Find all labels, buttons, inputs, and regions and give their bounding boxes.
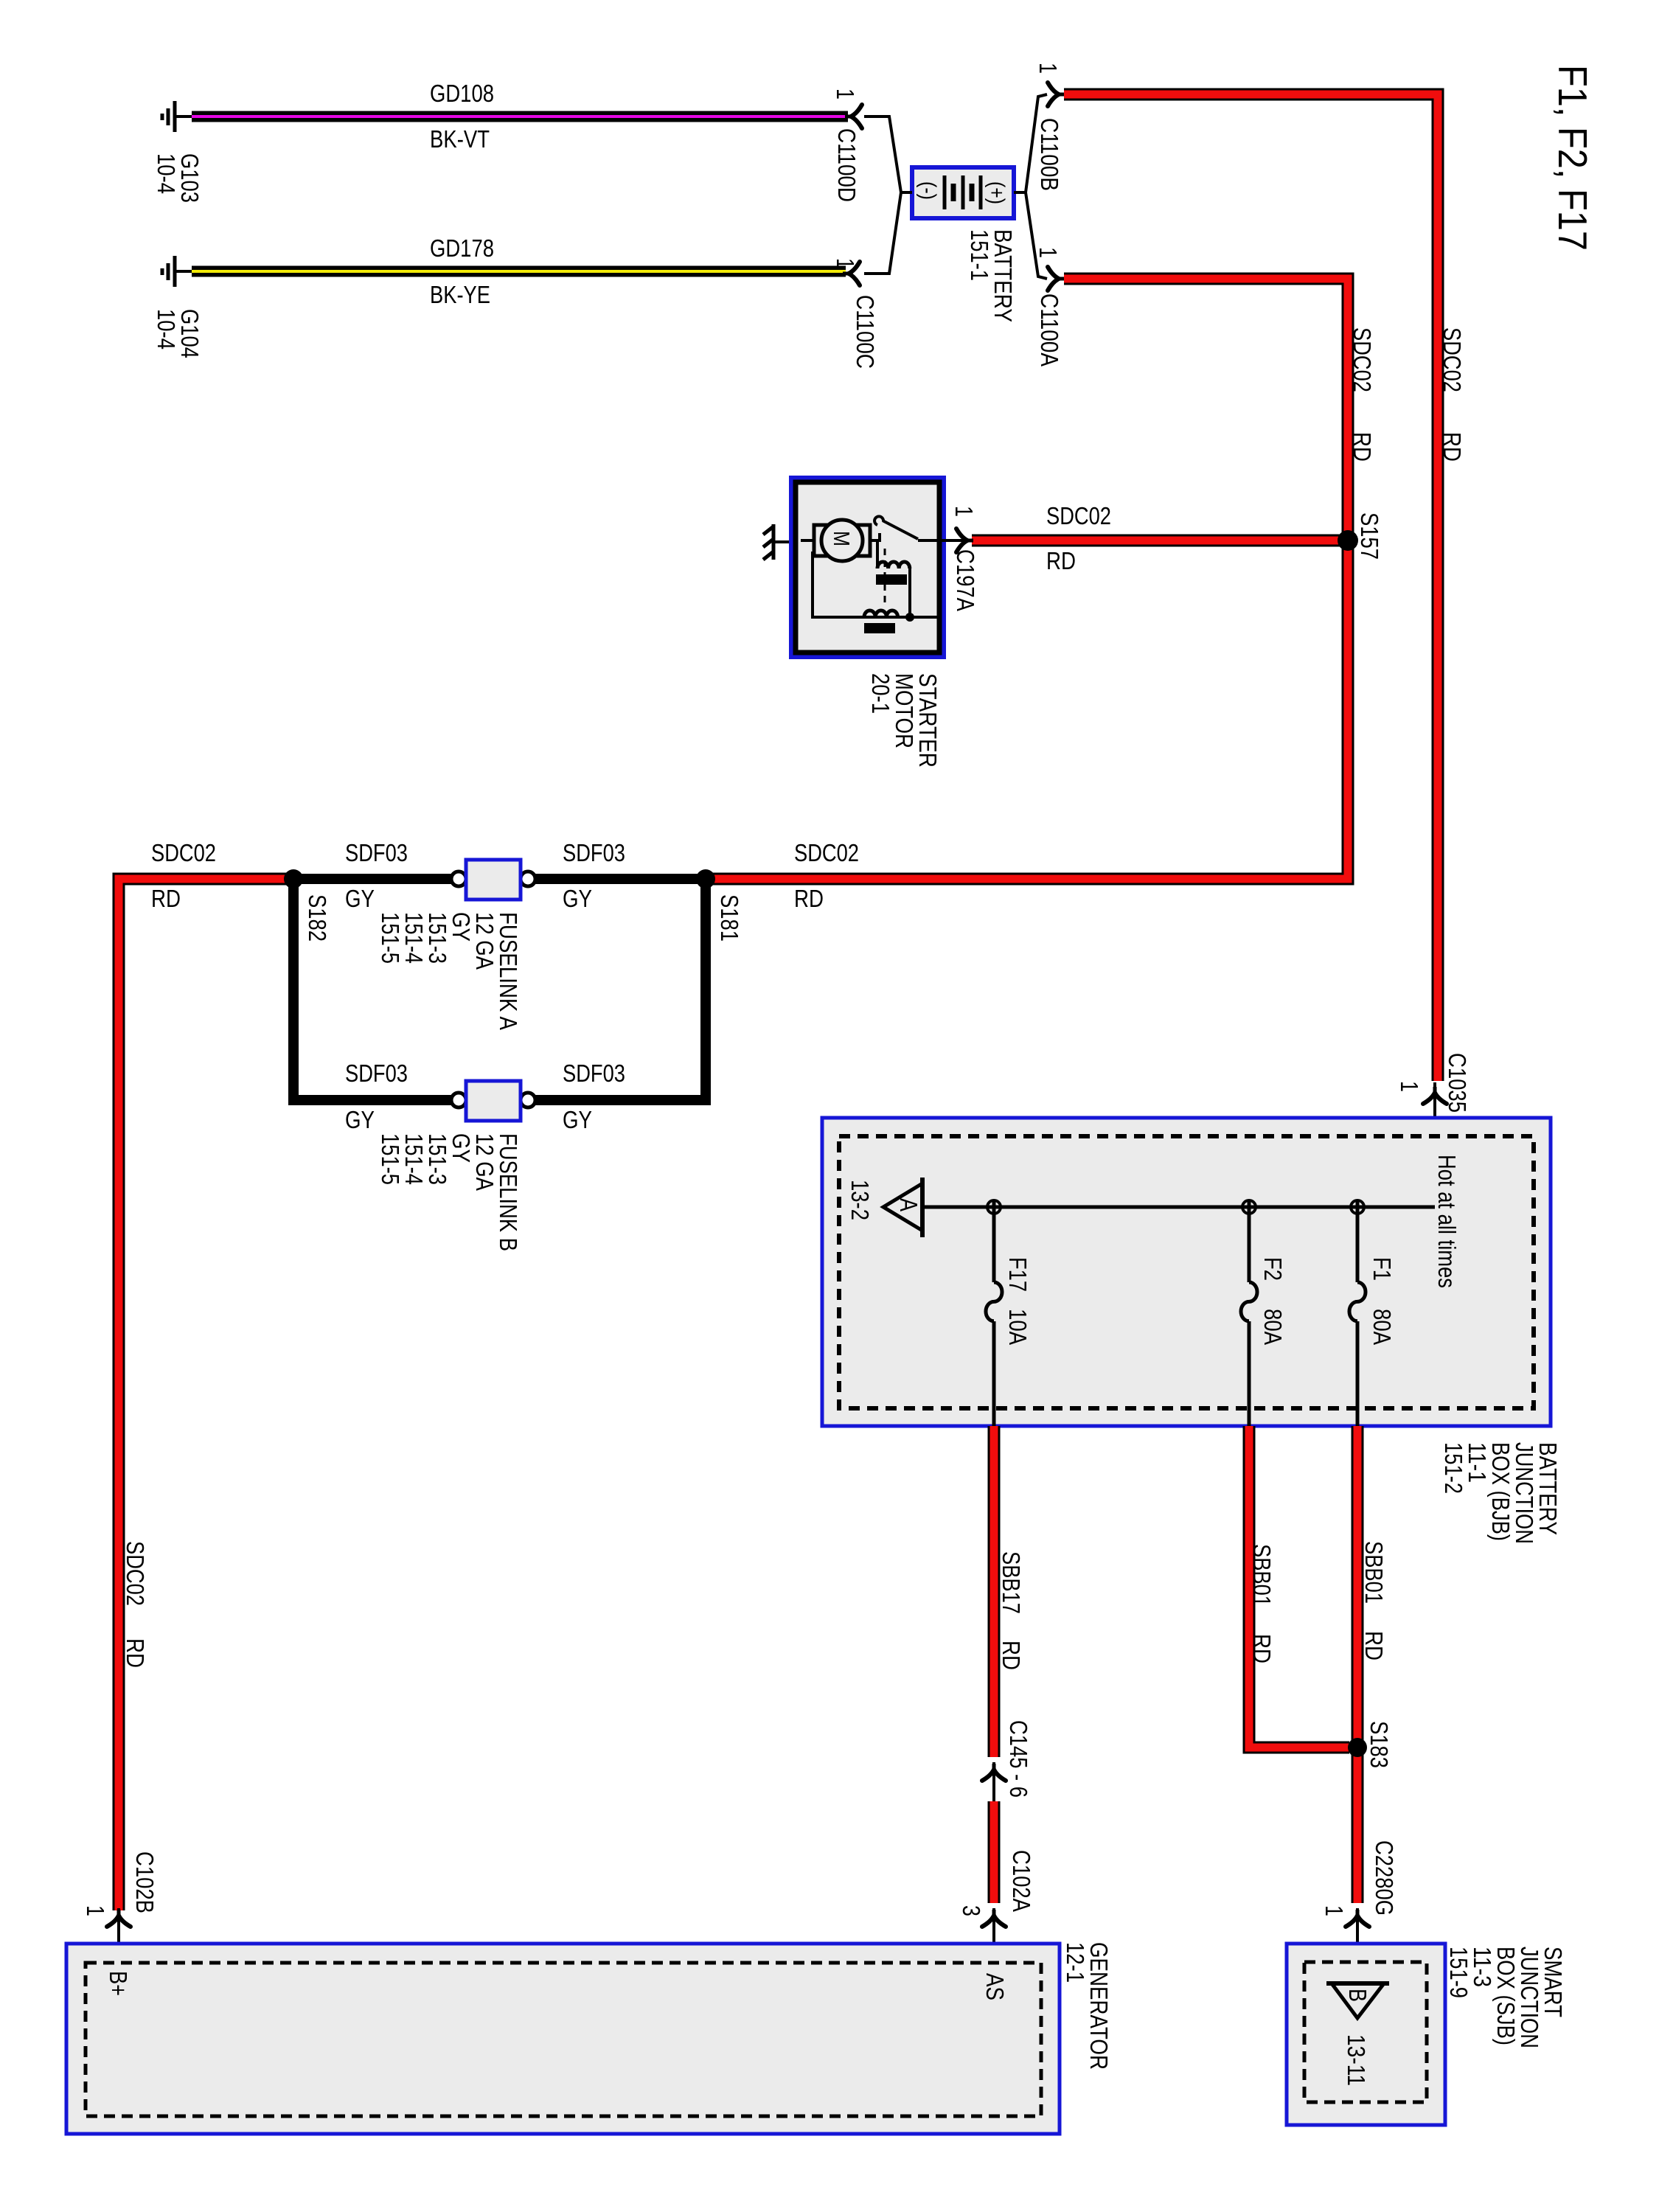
battery box [912, 167, 1014, 218]
svg-text:M: M [829, 531, 855, 546]
svg-text:C102A: C102A [1008, 1850, 1035, 1912]
svg-text:GY: GY [563, 1106, 592, 1133]
svg-text:GD178: GD178 [430, 234, 494, 262]
svg-text:(-): (-) [916, 181, 940, 200]
fuselink B terminals [451, 1093, 466, 1107]
svg-text:SDF03: SDF03 [563, 839, 625, 866]
starter motor internal return wire [813, 552, 939, 617]
fuselink A body [466, 860, 521, 900]
connector C102B arrow [117, 1908, 120, 1967]
BJB dashed border [839, 1136, 1534, 1408]
svg-text:C197A: C197A [952, 549, 979, 611]
svg-text:1: 1 [950, 506, 978, 517]
svg-text:RD: RD [151, 885, 181, 912]
svg-text:C145 - 6: C145 - 6 [1005, 1720, 1032, 1798]
svg-text:RD: RD [1439, 432, 1466, 462]
svg-text:GD108: GD108 [430, 80, 494, 107]
smart junction box SJB [1287, 1944, 1445, 2125]
wire GD108 BK-VT [192, 111, 848, 122]
svg-text:SDC02: SDC02 [1046, 502, 1111, 529]
svg-text:C1100D: C1100D [833, 128, 860, 202]
connector C1100C arrow [843, 262, 860, 285]
svg-text:SDC02: SDC02 [1349, 327, 1376, 392]
svg-text:F1: F1 [1368, 1257, 1396, 1281]
connector C1100B arrow [1048, 83, 1065, 106]
svg-text:SBB01: SBB01 [1360, 1541, 1388, 1604]
svg-text:10-4: 10-4 [153, 309, 180, 349]
wire SBB17 RD from fuse F17 [988, 1426, 1001, 1757]
svg-text:13-2: 13-2 [846, 1180, 874, 1220]
starter solenoid hold-in coil [864, 611, 898, 617]
generator box [66, 1944, 1060, 2134]
svg-text:RD: RD [1360, 1631, 1388, 1660]
svg-text:S182: S182 [304, 894, 331, 942]
junction S183 [1348, 1738, 1367, 1757]
svg-text:C1100A: C1100A [1036, 293, 1063, 366]
svg-text:BK-YE: BK-YE [430, 281, 490, 308]
battery junction box BJB [822, 1118, 1551, 1426]
ground G104 [175, 270, 192, 273]
svg-text:151-5: 151-5 [377, 1133, 404, 1185]
connector C1100A arrow [1048, 267, 1065, 291]
svg-text:B: B [1344, 1989, 1371, 2002]
svg-text:1: 1 [1396, 1081, 1423, 1092]
svg-text:SBB17: SBB17 [998, 1551, 1025, 1614]
chassis ground for starter motor [775, 540, 791, 543]
svg-text:20-1: 20-1 [867, 673, 894, 714]
svg-text:80A: 80A [1368, 1309, 1396, 1345]
wire battery negative to C1100C [864, 192, 901, 274]
wire SDC02 RD left branch from S182 to generator [119, 879, 293, 1910]
connector C197A arrow [956, 529, 973, 552]
svg-text:C1100C: C1100C [852, 295, 879, 369]
svg-text:RD: RD [794, 885, 824, 912]
svg-text:F1, F2, F17: F1, F2, F17 [1550, 65, 1596, 251]
starter solenoid dashed link [884, 549, 886, 606]
connector C145-6 arrow [992, 1762, 995, 1803]
wire SBB01 RD from fuse F2 [1249, 1426, 1349, 1747]
svg-text:10A: 10A [1004, 1309, 1032, 1345]
starter internal junction [905, 613, 914, 622]
junction S181 [696, 869, 715, 888]
wire SDC02 RD starter motor branch [972, 535, 1348, 547]
svg-text:GY: GY [345, 885, 375, 912]
fuselink A terminals [451, 872, 466, 886]
connector C102A arrow [992, 1908, 995, 1967]
fuse F17 10A [992, 1200, 996, 1282]
svg-text:C2280G: C2280G [1371, 1840, 1398, 1916]
connector C1035 arrow [1433, 1082, 1436, 1207]
wire SDC02 RD from C1100A through S157 to S181 [706, 279, 1348, 879]
svg-text:1: 1 [1034, 247, 1062, 258]
svg-text:80A: 80A [1259, 1309, 1287, 1345]
svg-text:F2: F2 [1259, 1257, 1287, 1281]
BJB bus wire [924, 1206, 1435, 1209]
wire SBB01 RD from fuse F1 to C2280G [1352, 1426, 1364, 1903]
svg-text:SBB01: SBB01 [1248, 1544, 1276, 1607]
starter solenoid pull-in coil [876, 540, 879, 568]
wire SBB17 RD lower segment [988, 1801, 1001, 1903]
svg-text:AS: AS [981, 1973, 1009, 2000]
starter motor M circle with brushes [801, 539, 814, 542]
junction S182 [284, 869, 303, 888]
svg-text:C1100B: C1100B [1036, 118, 1063, 191]
triangle B [1332, 1983, 1384, 2018]
svg-text:B+: B+ [105, 1971, 132, 1996]
junction S157 [1338, 530, 1358, 551]
wire GD178 BK-YE [192, 266, 846, 277]
svg-text:RD: RD [1046, 547, 1076, 574]
svg-text:GY: GY [563, 885, 592, 912]
svg-text:C102B: C102B [131, 1851, 159, 1913]
svg-text:SDF03: SDF03 [345, 839, 408, 866]
svg-text:151-2: 151-2 [1440, 1442, 1467, 1494]
svg-text:BK-VT: BK-VT [430, 125, 490, 153]
triangle A [883, 1183, 922, 1231]
svg-text:Hot at all times: Hot at all times [1433, 1155, 1461, 1288]
svg-text:SDC02: SDC02 [122, 1541, 149, 1606]
svg-text:12-1: 12-1 [1062, 1942, 1089, 1983]
ground G103 [175, 115, 192, 118]
svg-text:S181: S181 [716, 894, 743, 942]
svg-text:1: 1 [1321, 1905, 1348, 1916]
fuse F2 80A [1248, 1200, 1251, 1282]
svg-text:SDC02: SDC02 [794, 839, 859, 866]
svg-text:SDC02: SDC02 [1439, 327, 1466, 392]
svg-text:SDF03: SDF03 [563, 1060, 625, 1087]
wire starter to red [944, 539, 972, 542]
svg-text:S183: S183 [1366, 1721, 1393, 1768]
starter motor box [791, 478, 944, 657]
svg-text:13-11: 13-11 [1343, 2034, 1370, 2086]
svg-text:RD: RD [998, 1641, 1025, 1670]
svg-text:1: 1 [82, 1905, 109, 1916]
svg-text:1: 1 [1034, 63, 1062, 74]
svg-text:151-9: 151-9 [1445, 1947, 1472, 1998]
generator dashed border [86, 1963, 1041, 2116]
wire SDC02 RD from C1100B to C1035 [1064, 94, 1438, 1081]
connector C1100D arrow [845, 105, 862, 128]
svg-text:A: A [895, 1198, 922, 1211]
svg-text:S157: S157 [1356, 512, 1383, 560]
svg-text:151-1: 151-1 [966, 229, 993, 281]
svg-text:1: 1 [832, 258, 859, 269]
svg-text:RD: RD [1248, 1634, 1276, 1663]
svg-text:151-5: 151-5 [377, 912, 404, 964]
wire battery positive to C1100B [1014, 94, 1047, 192]
wire battery negative to C1100D [864, 116, 912, 192]
wire battery positive to C1100A [1026, 192, 1047, 279]
svg-text:C1035: C1035 [1444, 1053, 1471, 1113]
svg-text:1: 1 [832, 88, 859, 100]
svg-text:RD: RD [122, 1638, 149, 1668]
svg-text:(+): (+) [984, 181, 1009, 204]
battery cells [943, 175, 947, 209]
SJB dashed border [1304, 1962, 1427, 2102]
svg-text:GY: GY [345, 1106, 375, 1133]
starter solenoid switch [870, 533, 880, 540]
svg-text:10-4: 10-4 [153, 153, 180, 194]
svg-text:3: 3 [958, 1905, 985, 1916]
svg-text:F17: F17 [1004, 1257, 1032, 1292]
svg-text:SDF03: SDF03 [345, 1060, 408, 1087]
svg-text:SDC02: SDC02 [151, 839, 216, 866]
connector C2280G arrow [1356, 1908, 1359, 1983]
fuse F1 80A [1356, 1200, 1360, 1282]
fuselink B body [466, 1081, 521, 1121]
svg-text:RD: RD [1349, 432, 1376, 462]
wire SDF03 GY loop S182 S181 [293, 879, 706, 1100]
